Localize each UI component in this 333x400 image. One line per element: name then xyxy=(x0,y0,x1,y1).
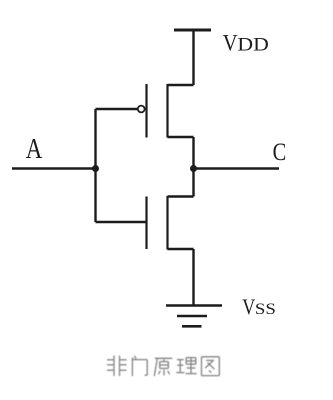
caption char 门 xyxy=(132,356,147,376)
power rail VDD bar xyxy=(174,29,211,32)
node input junction xyxy=(92,165,99,172)
svg-text:C: C xyxy=(273,139,287,166)
Q1 channel bar xyxy=(166,84,168,138)
svg-text:DD: DD xyxy=(237,34,268,55)
Q2 gate bar xyxy=(145,197,147,250)
Q2 source horizontal xyxy=(168,248,194,250)
wire input vertical to both gates xyxy=(94,109,96,222)
wire PMOS source to output node xyxy=(192,137,194,169)
caption char 非 xyxy=(107,356,127,377)
node output junction xyxy=(190,165,197,172)
Q1 drain horizontal xyxy=(168,84,194,86)
caption char 理 xyxy=(176,358,196,374)
svg-text:SS: SS xyxy=(255,301,276,318)
wire VDD to PMOS drain xyxy=(192,30,194,85)
svg-text:V: V xyxy=(242,294,255,319)
Q2 channel bar xyxy=(166,196,168,250)
net label A xyxy=(26,133,43,165)
net label VSS xyxy=(242,294,276,319)
svg-text:A: A xyxy=(26,133,43,165)
Q1 gate bar xyxy=(145,84,147,138)
transistor Q1 PMOS xyxy=(138,84,194,138)
svg-text:V: V xyxy=(223,31,238,56)
net label VDD xyxy=(223,31,269,56)
Q1 source horizontal xyxy=(168,136,194,138)
wire output node to NMOS drain xyxy=(192,169,194,197)
transistor Q2 NMOS xyxy=(147,196,194,250)
caption 非门原理图 xyxy=(107,356,219,377)
wire to PMOS gate bubble xyxy=(96,108,138,110)
wire output to C xyxy=(194,167,280,169)
wire input A xyxy=(12,167,96,169)
Q2 drain horizontal xyxy=(168,195,194,197)
ground symbol xyxy=(166,306,222,327)
wire to NMOS gate xyxy=(96,221,147,223)
caption char 图 xyxy=(202,357,220,376)
net label C xyxy=(273,139,287,166)
Q1 gate bubble xyxy=(138,106,145,113)
wire NMOS source to ground xyxy=(192,249,194,305)
caption char 原 xyxy=(154,358,172,376)
